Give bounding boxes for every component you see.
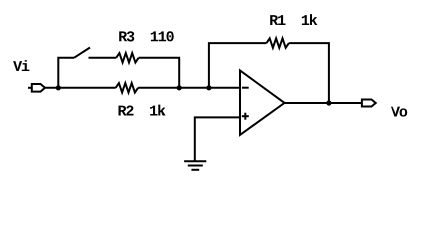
resistor R3 — [116, 53, 138, 62]
op-amp U1 — [240, 71, 285, 135]
label R2 1k — [119, 105, 166, 116]
wire feedback up — [209, 43, 267, 88]
pin minus — [242, 87, 249, 89]
resistor R2 — [116, 83, 138, 92]
resistor R1 — [267, 38, 289, 47]
wire plus input — [195, 117, 240, 161]
switch S1 — [74, 48, 90, 58]
node input junction — [56, 85, 61, 90]
node feedback tap — [206, 85, 211, 90]
wire output — [285, 102, 362, 104]
label Vi — [13, 60, 29, 71]
port Vo — [362, 100, 376, 107]
label R1 1k — [270, 14, 317, 25]
label Vo — [391, 107, 407, 117]
wire feedback down — [289, 43, 329, 103]
wire R3 branch right — [139, 58, 180, 88]
wire Vi to R2 — [45, 87, 116, 89]
label R3 110 — [119, 31, 174, 41]
node branch junction — [177, 85, 182, 90]
node output junction — [326, 100, 331, 105]
wire R2 to op-amp — [138, 87, 240, 89]
pin plus — [242, 113, 249, 120]
wire switch branch left — [58, 58, 74, 88]
ground — [184, 161, 206, 170]
port Vi — [28, 84, 45, 92]
wire switch to R3 — [89, 57, 117, 59]
